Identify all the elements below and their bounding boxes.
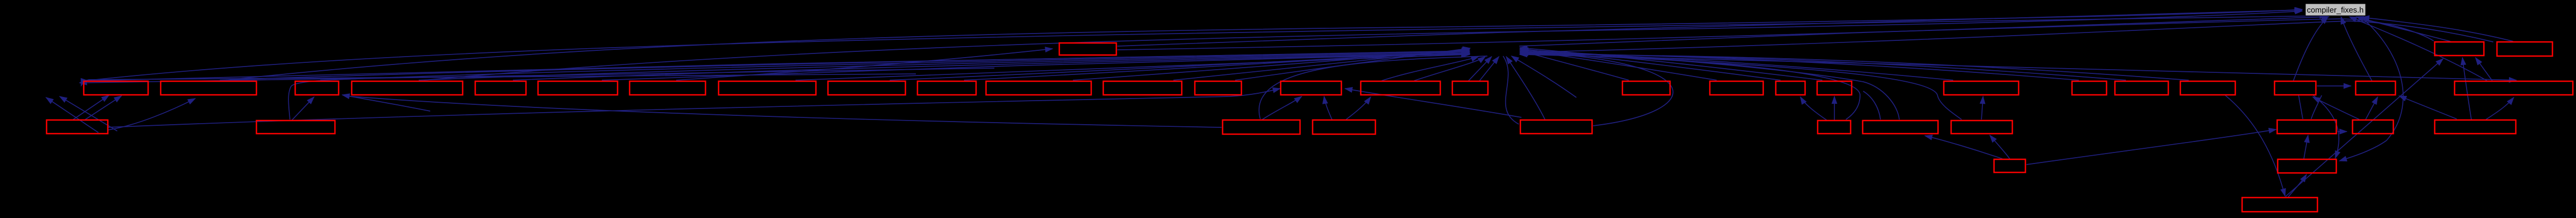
edge B24 to hub — [1520, 54, 2189, 80]
node T2 — [2435, 42, 2484, 56]
edge B19 to hub — [1520, 49, 1780, 80]
node D — [1313, 120, 1375, 134]
node H — [1951, 121, 2012, 134]
edge T3 to gray node — [2362, 17, 2513, 41]
edge F to B20 — [1834, 96, 1835, 120]
edge B15 to hub bottom b — [1414, 57, 1485, 81]
edge B21 to hub — [1520, 52, 1953, 80]
node C — [1223, 120, 1300, 134]
edge G stub — [1863, 91, 1880, 119]
edge A to left node a — [46, 97, 98, 133]
edge K to T2 — [2462, 58, 2471, 119]
node B14 — [1281, 81, 1341, 95]
edge K to B26 — [2399, 96, 2457, 119]
edge T3 tail toward gray — [1521, 21, 2493, 52]
edge B27 to gray node — [2349, 17, 2487, 81]
edge B13 to hub — [1235, 48, 1470, 80]
node B11 — [986, 81, 1091, 95]
node B2r — [256, 121, 335, 134]
edge B4 to C left — [352, 96, 1222, 127]
edge B2r to hub arc — [288, 77, 550, 119]
edge D to B14 — [1324, 96, 1332, 119]
edge A to B1 b — [85, 96, 121, 119]
node B9 — [828, 81, 905, 95]
node B17 — [1622, 81, 1670, 95]
node K — [2435, 120, 2516, 134]
node B16 — [1452, 81, 1488, 95]
node N — [2242, 198, 2317, 212]
node B12 — [1103, 81, 1182, 95]
edge B24 to N — [2225, 95, 2285, 196]
node B18 — [1710, 81, 1763, 95]
node B5 — [475, 81, 526, 95]
edge B23 to hub — [1520, 54, 2126, 80]
edge B26 to gray node — [2341, 17, 2372, 81]
edge B8 to hub — [796, 54, 1469, 80]
node F — [1818, 121, 1851, 134]
edge B3 to hub — [320, 53, 1470, 80]
edge T1 to gray node — [1117, 10, 2302, 46]
edge B15 to hub bottom a — [1382, 57, 1479, 81]
edge N to T2 — [2286, 59, 2443, 197]
edge B25 to B26 — [2317, 85, 2351, 86]
edge D to B15 — [1346, 97, 1371, 119]
node B7 — [630, 81, 705, 95]
node B23 — [2115, 81, 2168, 95]
edge K to B27 — [2486, 97, 2514, 119]
edge I top tail — [2311, 95, 2322, 119]
edge J to B26 — [2366, 97, 2378, 119]
edge hub to gray node — [1519, 17, 2329, 46]
edge B17 to hub — [1520, 51, 1629, 80]
node J — [2353, 120, 2393, 134]
node L — [1994, 159, 2025, 172]
node B20 — [1817, 81, 1852, 95]
edge B16 to hub bottom b — [1480, 57, 1499, 81]
node B4 — [352, 81, 463, 95]
edge T2 tail toward gray — [1117, 19, 2434, 50]
edge E to B14 right — [1345, 89, 1521, 117]
node B25 — [2275, 81, 2316, 95]
edge C to B14 — [1262, 96, 1302, 119]
edge B2 to gray — [225, 9, 2302, 80]
edge below right to hub bottom — [1511, 56, 1576, 97]
node B1 — [84, 81, 148, 95]
node compiler_fixes.h — [2305, 4, 2366, 16]
node A — [47, 120, 108, 134]
svg-text:compiler_fixes.h: compiler_fixes.h — [2307, 6, 2364, 15]
edge A to B14 left — [108, 89, 1280, 127]
edge B2r to B3 — [292, 97, 314, 120]
edge hub to B27 top — [1523, 54, 2516, 80]
edge B5 to hub — [513, 54, 1470, 80]
node I — [2277, 120, 2336, 134]
edge C to hub arc — [1259, 56, 1487, 119]
edge B2 to hub — [220, 52, 1470, 80]
node G — [1863, 121, 1938, 134]
edge B7 to node T1 — [676, 49, 1052, 80]
edge B10 to hub — [964, 50, 1469, 80]
edge L to G — [1925, 136, 2002, 159]
edge B6 to hub — [602, 53, 1470, 80]
edge M to I — [2304, 135, 2308, 159]
edge N to M — [2288, 175, 2306, 197]
node B26 — [2356, 81, 2395, 95]
node T1 — [1059, 43, 1116, 55]
edge L to I left — [2026, 129, 2276, 165]
node B8 — [719, 81, 816, 95]
edge gray arc to M — [2339, 17, 2403, 161]
edge H to hub tail — [1521, 53, 1962, 119]
edge B4 to gray — [424, 11, 2302, 80]
edge A to B2 bottom — [108, 99, 195, 130]
edge I to B25 tail — [2299, 95, 2303, 119]
edge E top to hub bottom — [1506, 57, 1545, 119]
edge B25 to M arc — [2313, 95, 2339, 158]
edge A to B1 a — [73, 95, 109, 119]
node E — [1520, 120, 1592, 134]
node M — [2278, 159, 2336, 173]
edge B27 to T2 — [2476, 58, 2492, 81]
edge J to B25 — [2313, 97, 2359, 119]
edge B16 to hub bottom a — [1469, 57, 1492, 81]
edge I to J — [2337, 131, 2347, 132]
edge B1 to hub low — [90, 51, 1470, 81]
edge B11 to hub — [1073, 50, 1469, 80]
edge shallow to left node b — [81, 74, 916, 86]
node B24 — [2180, 81, 2235, 95]
node B13 — [1195, 81, 1241, 95]
edge A to left node b — [60, 96, 117, 131]
edge E left tail arc — [1503, 56, 1519, 124]
edge E to hub swing — [1529, 52, 1673, 126]
edge B25 to gray node — [2293, 17, 2328, 81]
edge B1 to gray high — [85, 16, 2327, 81]
edge H to B21 — [1981, 96, 1983, 119]
edge to B3 corner — [342, 95, 430, 111]
edge T2 to gray node — [2356, 17, 2450, 41]
node B15 — [1361, 81, 1440, 95]
node T3 — [2497, 42, 2552, 56]
edge B4 to hub — [419, 54, 1470, 80]
node B2 — [161, 81, 256, 95]
edge F to B19 a — [1800, 97, 1827, 120]
edge B22 to hub — [1520, 53, 2079, 80]
node B6 — [538, 81, 618, 95]
node B21 — [1944, 81, 2019, 95]
node B10 — [917, 81, 976, 95]
node B19 — [1776, 81, 1805, 95]
edge B20 to hub — [1520, 48, 1822, 80]
edge B9 to hub — [890, 51, 1469, 80]
edge shallow to left node a — [80, 68, 994, 83]
edge B12 to hub — [1173, 49, 1470, 80]
edge L to H — [1990, 135, 2010, 159]
node B3 — [295, 81, 339, 95]
node B22 — [2072, 81, 2107, 95]
edge G to hub tail — [1521, 50, 1899, 119]
node B27 — [2455, 81, 2573, 95]
edge F to hub tail — [1521, 51, 1860, 119]
edge B18 to hub — [1520, 50, 1717, 80]
